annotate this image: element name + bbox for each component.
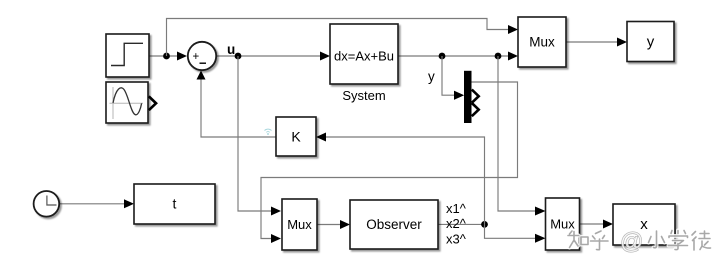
junction: xhat node bbox=[481, 221, 488, 228]
wire: clock to t block bbox=[59, 199, 134, 208]
t block bbox=[134, 184, 215, 224]
x output block bbox=[613, 204, 675, 245]
demux unconnected output port 3 bbox=[472, 103, 479, 116]
junction: y branch node bbox=[439, 53, 446, 60]
junction: step branch node bbox=[163, 53, 170, 60]
unconnected output port of sine block bbox=[149, 96, 156, 110]
wire: K output to sum minus input bbox=[197, 71, 277, 138]
wire: step output to sum bbox=[149, 52, 187, 61]
demux bar bbox=[464, 71, 472, 123]
svg-text:Mux: Mux bbox=[287, 217, 312, 232]
wire: reference branch up and to top Mux input 1 bbox=[167, 19, 519, 57]
wire: top Mux output to y block bbox=[566, 38, 627, 47]
svg-text:x3^: x3^ bbox=[446, 232, 467, 247]
svg-text:y: y bbox=[647, 34, 655, 51]
Mux block (top) bbox=[518, 17, 566, 67]
demux unconnected output port 2 bbox=[472, 90, 479, 103]
svg-text:Observer: Observer bbox=[366, 217, 422, 232]
logging badge near K bbox=[265, 129, 272, 135]
svg-text:y: y bbox=[428, 69, 435, 84]
svg-text:@: @ bbox=[620, 228, 643, 254]
wire: xhat to Mux2 input 2 bbox=[485, 224, 546, 242]
clock block bbox=[34, 191, 60, 217]
sum junction bbox=[188, 42, 216, 70]
sine wave source block bbox=[106, 82, 148, 123]
step source block bbox=[106, 34, 149, 77]
wire: y down to Mux2 input 1 bbox=[498, 56, 546, 216]
state-space block System bbox=[330, 24, 398, 103]
wire: Mux1 output to Observer input bbox=[317, 220, 350, 229]
svg-text:K: K bbox=[291, 129, 301, 145]
node u bbox=[227, 42, 241, 59]
wire: y branch down into Demux bbox=[442, 56, 464, 100]
wire: Mux2 output to x block bbox=[580, 220, 614, 229]
svg-text:x1^: x1^ bbox=[446, 201, 467, 216]
Mux2 block (bottom right) bbox=[546, 198, 580, 250]
svg-text:System: System bbox=[342, 88, 385, 103]
Mux1 block (bottom left) bbox=[282, 199, 317, 250]
junction: y feedback node bbox=[495, 53, 502, 60]
demux input arrowhead bbox=[454, 91, 464, 100]
Observer block bbox=[350, 200, 438, 249]
wire: System output to top Mux input 2 bbox=[398, 52, 518, 61]
wire: xhat feedback up to gain K input bbox=[316, 133, 485, 225]
wire: Observer output bbox=[438, 223, 485, 225]
svg-text:t: t bbox=[173, 196, 177, 212]
svg-text:Mux: Mux bbox=[529, 35, 555, 50]
svg-text:x2^: x2^ bbox=[446, 216, 467, 231]
gain K block bbox=[276, 117, 316, 156]
wire: u down to Mux1 input 1 bbox=[238, 56, 281, 216]
wire: demux output 1 feedback loop to Mux1 input 2 bbox=[261, 82, 518, 243]
svg-text:dx=Ax+Bu: dx=Ax+Bu bbox=[334, 49, 394, 64]
y output block bbox=[627, 22, 674, 62]
watermark bbox=[568, 228, 711, 254]
svg-text:+: + bbox=[193, 51, 200, 63]
svg-text:u: u bbox=[227, 42, 235, 57]
wire: sum output to System input bbox=[217, 52, 331, 61]
